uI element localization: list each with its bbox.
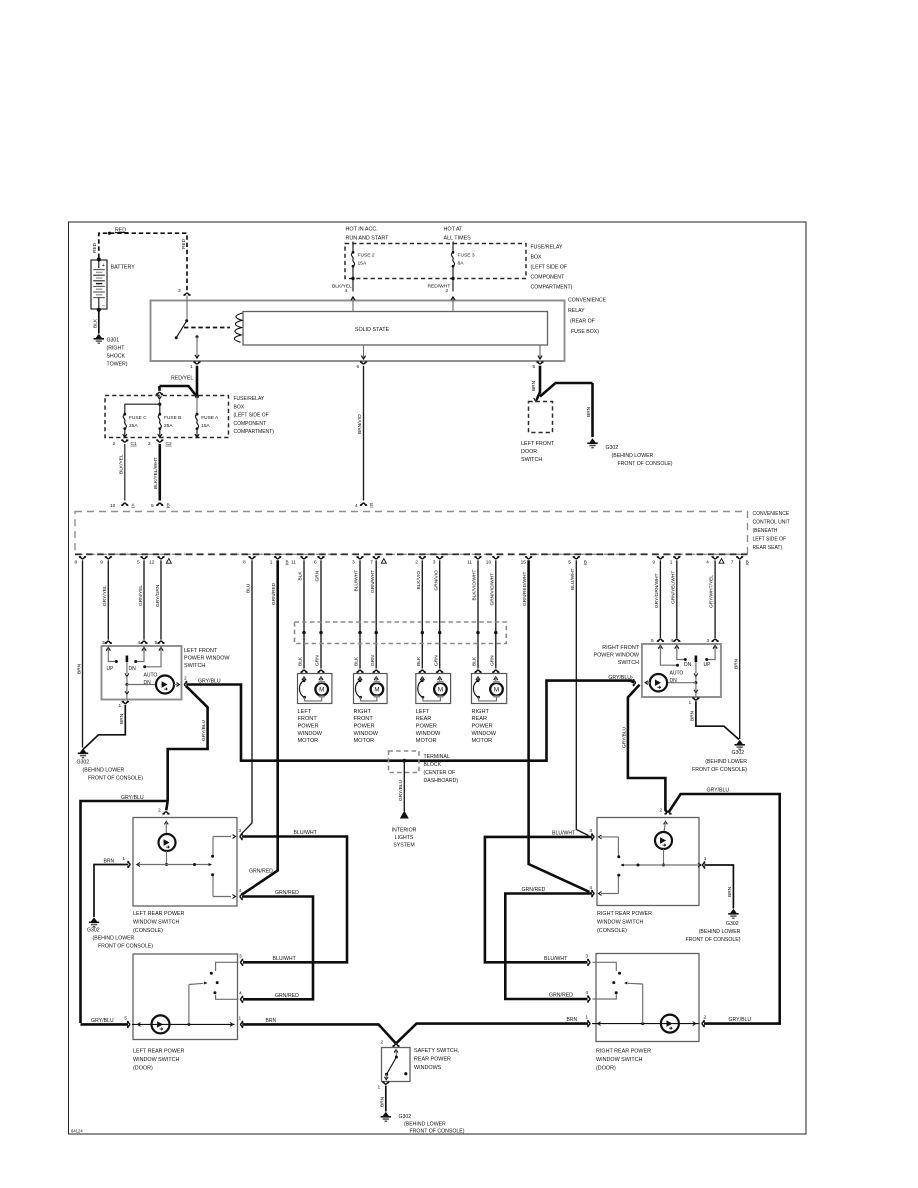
svg-text:1: 1 (689, 700, 692, 706)
door switch pin 3 right (587, 959, 590, 965)
wire BRN relay pin 5 to left front door switch (539, 366, 542, 393)
svg-text:COMPARTMENT): COMPARTMENT) (531, 285, 573, 291)
wire BLK/YEL/WHT fuse B to control unit pin 5-B (159, 444, 162, 501)
svg-text:4: 4 (589, 885, 592, 891)
relay pin 2 (452, 298, 454, 312)
svg-text:BLU/WHT: BLU/WHT (570, 568, 576, 590)
wire GRN/RED right console pin 4 to right door pin 4 (505, 894, 592, 1000)
svg-text:11: 11 (291, 559, 296, 565)
svg-text:BLK: BLK (354, 656, 360, 666)
svg-text:COMPONENT: COMPONENT (531, 275, 566, 281)
splice triangle after pin 12 (166, 559, 171, 564)
svg-text:3: 3 (102, 640, 105, 646)
svg-text:GRY/GRN: GRY/GRN (155, 584, 161, 607)
svg-text:1: 1 (190, 364, 193, 370)
right rear power window motor box (472, 674, 507, 704)
svg-text:LEFT REAR POWER: LEFT REAR POWER (133, 911, 185, 917)
svg-text:BRN: BRN (379, 1096, 385, 1107)
svg-text:FRONT OF CONSOLE): FRONT OF CONSOLE) (618, 461, 673, 467)
svg-text:M: M (374, 687, 379, 694)
svg-text:10: 10 (486, 559, 492, 565)
console auto-down circle right (655, 832, 672, 849)
wire GRY/GRN control pin 12 to switch pin 5 (160, 560, 162, 639)
svg-text:5: 5 (651, 638, 654, 644)
svg-text:2: 2 (148, 441, 151, 447)
wire GRY/GRN/WHT control pin 9 to right switch pin 5 (659, 560, 661, 638)
wire BLU/WHT right console pin 3 to right door pin 3 (485, 837, 592, 962)
svg-text:B: B (584, 560, 587, 565)
svg-text:2: 2 (184, 676, 187, 682)
svg-text:(CONSOLE): (CONSOLE) (597, 928, 627, 934)
relay pin 4 (352, 298, 354, 312)
svg-text:LIGHTS: LIGHTS (395, 835, 414, 841)
door switch common line right (592, 1023, 700, 1025)
left front power window switch S1 box (102, 646, 182, 700)
console switch pin 1 right (703, 862, 706, 868)
svg-text:GRN: GRN (370, 655, 376, 666)
svg-text:CONVENIENCE: CONVENIENCE (568, 298, 607, 304)
wire BRN switch pin 1 to ground (84, 705, 126, 749)
right rear power window switch (door) S6 box (596, 954, 699, 1042)
wire into fuse 3 (452, 242, 454, 253)
safety switch box (382, 1048, 411, 1082)
wire BLK control unit to window motor (303, 560, 305, 668)
left rear power window motor motor armature (434, 683, 447, 696)
svg-text:BRN: BRN (586, 406, 592, 417)
fuse F3 8A (452, 251, 455, 254)
fuse box feed bus (159, 395, 161, 399)
splice triangle after pin 4 right (719, 559, 724, 564)
svg-text:BRN: BRN (266, 1018, 277, 1024)
wire GRN/VIO/WHT control unit to window motor (495, 560, 497, 668)
door switch pin 3 (241, 959, 244, 965)
switch pin 1 (122, 701, 128, 704)
door pin 4 contact right (593, 995, 617, 1000)
interior lights system off-page arrow (400, 811, 409, 819)
svg-text:(CONSOLE): (CONSOLE) (133, 928, 163, 934)
svg-text:B: B (746, 560, 749, 565)
svg-text:5: 5 (124, 1016, 127, 1022)
svg-text:SWITCH: SWITCH (618, 660, 639, 666)
svg-text:POWER WINDOW: POWER WINDOW (593, 653, 639, 659)
right rear power window motor pin arrows (476, 677, 480, 680)
svg-text:9: 9 (100, 559, 103, 565)
svg-text:2: 2 (660, 808, 663, 814)
svg-text:BLU/WHT: BLU/WHT (273, 956, 297, 962)
svg-text:2: 2 (415, 559, 418, 565)
fuse/relay box (left) dashed enclosure (105, 396, 229, 438)
svg-text:DASHBOARD): DASHBOARD) (424, 778, 459, 784)
switch pin 2 (633, 680, 636, 686)
svg-text:1: 1 (122, 856, 125, 862)
svg-text:BLU/WHT: BLU/WHT (294, 830, 318, 836)
svg-text:G302: G302 (726, 921, 739, 927)
svg-text:WINDOW SWITCH: WINDOW SWITCH (133, 1057, 180, 1063)
right rear power window motor motor armature (490, 683, 503, 696)
wire GRN/VIO control unit to window motor (439, 560, 441, 668)
fuse/relay box (top) dashed enclosure (345, 244, 526, 279)
svg-text:GRY/GRN/WHT: GRY/GRN/WHT (654, 573, 660, 608)
svg-text:5: 5 (568, 559, 571, 565)
svg-text:FUSE/RELAY: FUSE/RELAY (234, 396, 265, 402)
switch DN contact (137, 652, 145, 662)
wire BRN control pin 7 to ground right (739, 560, 741, 739)
svg-text:GRY/BLU: GRY/BLU (707, 788, 730, 794)
svg-text:1: 1 (270, 559, 273, 565)
svg-text:(REAR OF: (REAR OF (570, 319, 595, 325)
wire GRY/BLU right branch to rear switches (628, 685, 667, 813)
svg-text:3: 3 (585, 954, 588, 960)
connector junction dots (302, 631, 305, 634)
svg-text:BATTERY: BATTERY (111, 265, 136, 271)
wire BLK battery to ground (98, 309, 100, 334)
relay pin 1 (196, 337, 198, 358)
svg-text:FUSE B: FUSE B (164, 415, 181, 421)
svg-text:BRN: BRN (567, 1017, 578, 1023)
svg-text:COMPARTMENT): COMPARTMENT) (234, 429, 275, 435)
svg-text:G301: G301 (107, 338, 120, 344)
console auto-down circle (159, 834, 176, 851)
motor M-RIGHTREAR connector pins (475, 670, 481, 673)
svg-text:GRY/BLU: GRY/BLU (121, 795, 144, 801)
svg-text:GRN/YEL/WHT: GRN/YEL/WHT (670, 571, 676, 604)
ground G302 safety switch (381, 1112, 391, 1121)
svg-text:UP: UP (704, 662, 712, 668)
svg-text:BLK: BLK (472, 656, 478, 666)
svg-text:TERMINAL: TERMINAL (424, 754, 450, 760)
door switch pin 1 (241, 1021, 244, 1027)
wire GRN/WHT control unit to window motor (375, 560, 377, 668)
svg-text:M: M (494, 687, 499, 694)
svg-text:GRN/RED: GRN/RED (275, 890, 299, 896)
door pin 3 contact right (593, 962, 617, 971)
svg-text:RIGHT REAR POWER: RIGHT REAR POWER (597, 911, 652, 917)
door switch pin 4 right (587, 996, 590, 1002)
svg-text:GRY/BLU: GRY/BLU (621, 726, 627, 748)
svg-text:REAR POWER: REAR POWER (414, 1057, 451, 1063)
svg-text:GRY/BLU: GRY/BLU (608, 675, 631, 681)
svg-text:BLK/VIO/WHT: BLK/VIO/WHT (472, 570, 478, 601)
wire BRN right console pin 1 to ground (704, 865, 733, 909)
svg-text:WINDOW: WINDOW (354, 731, 379, 737)
wire into fuse 2 (352, 242, 354, 253)
svg-text:GRN/VIO: GRN/VIO (433, 570, 439, 591)
switch common contact bar (126, 656, 129, 663)
svg-text:G302: G302 (87, 928, 100, 934)
svg-text:BLOCK: BLOCK (424, 762, 442, 768)
left rear power window switch (console) S3 box (133, 818, 237, 907)
svg-text:AUTO: AUTO (670, 671, 684, 677)
wire RED/YEL relay pin 1 to fuse box (196, 366, 199, 396)
svg-text:15A: 15A (201, 423, 210, 429)
svg-text:7: 7 (731, 559, 734, 565)
svg-text:GRY/WHT/YEL: GRY/WHT/YEL (709, 575, 715, 608)
svg-text:(BEHIND LOWER: (BEHIND LOWER (612, 453, 654, 459)
svg-text:1: 1 (585, 1015, 588, 1021)
svg-text:C2: C2 (166, 441, 172, 447)
svg-text:BLK/YEL: BLK/YEL (119, 454, 125, 474)
wire BLU/WHT left console pin 3 to left door pin 3 (242, 837, 347, 963)
svg-text:RUN AND START: RUN AND START (346, 236, 390, 242)
svg-text:4: 4 (345, 288, 348, 294)
convenience relay outer box (151, 301, 565, 362)
svg-text:1: 1 (239, 1016, 242, 1022)
svg-text:CONTROL UNIT: CONTROL UNIT (753, 520, 790, 526)
svg-text:5: 5 (137, 559, 140, 565)
svg-text:DN: DN (670, 678, 678, 684)
switch auto-down line (127, 684, 156, 686)
svg-text:LEFT REAR POWER: LEFT REAR POWER (133, 1049, 185, 1055)
relay switch to coil dashed link (184, 327, 230, 329)
wire GRY/BLU down left side to door switch (81, 801, 168, 1023)
svg-text:POWER WINDOW: POWER WINDOW (184, 656, 230, 662)
svg-text:(BEHIND LOWER: (BEHIND LOWER (699, 929, 741, 935)
svg-text:BRN: BRN (104, 858, 115, 864)
left rear power window motor brush arc (418, 681, 423, 698)
svg-text:GRN/WHT: GRN/WHT (370, 570, 376, 593)
svg-text:GRN: GRN (315, 570, 321, 581)
switch pin5 contact (660, 650, 676, 665)
svg-text:RIGHT: RIGHT (472, 709, 490, 715)
console switch pin 2 right (665, 812, 671, 815)
svg-text:2: 2 (158, 808, 161, 814)
svg-text:FUSE A: FUSE A (201, 415, 219, 421)
safety switch contacts (394, 1050, 398, 1053)
door switch pin 1 right (587, 1020, 590, 1026)
svg-text:M: M (438, 687, 443, 694)
ground G302 right console (728, 909, 738, 918)
wire BLU/WHT control pin 5 to right rear console switch pin 3 (576, 560, 588, 835)
svg-text:5: 5 (151, 503, 154, 509)
svg-text:3: 3 (239, 828, 242, 834)
svg-text:UP: UP (107, 666, 115, 672)
svg-text:8: 8 (75, 559, 78, 565)
wire RED dashed from battery to relay pin 3 (99, 233, 187, 291)
svg-text:–: – (102, 303, 105, 309)
svg-text:WINDOW: WINDOW (472, 731, 497, 737)
svg-text:FUSE BOX): FUSE BOX) (571, 329, 599, 335)
svg-text:GRN/RED: GRN/RED (522, 887, 546, 893)
wire BRN left door pin 1 to safety switch (242, 1024, 395, 1043)
wire BLK/YEL fuse C to control unit pin 10-A (124, 444, 126, 501)
wire GRN/YEL control pin 5 to switch pin 4 (143, 560, 145, 639)
svg-text:LEFT SIDE OF: LEFT SIDE OF (753, 537, 787, 543)
svg-text:HOT IN ACC.: HOT IN ACC. (346, 227, 378, 233)
wire BLK/VIO control unit to window motor (421, 560, 423, 668)
wire BLU/WHT control unit to window motor (359, 560, 361, 668)
svg-text:SOLID STATE: SOLID STATE (355, 327, 390, 333)
svg-text:SWITCH: SWITCH (184, 663, 205, 669)
left front power window motor brush arc (299, 681, 304, 698)
switch pin 2 (185, 681, 188, 687)
door switch pin 4 (241, 996, 244, 1002)
door switch selector right (642, 984, 644, 1024)
fuse F2 15A (352, 251, 355, 254)
wire GRN/RED control pin 1 to left rear console switch pin 4 (243, 560, 278, 894)
console common line right (663, 849, 665, 865)
wire GRY/BLU left front switch pin 2 across terminal block to right front switch pin 2 (186, 681, 634, 761)
svg-text:11: 11 (467, 559, 472, 565)
svg-text:C1: C1 (131, 441, 137, 447)
relay switch contacts (186, 296, 188, 321)
svg-text:B: B (286, 560, 289, 565)
svg-text:(CENTER OF: (CENTER OF (424, 770, 456, 776)
svg-text:LEFT FRONT: LEFT FRONT (521, 441, 555, 447)
svg-text:GRY/BLU: GRY/BLU (398, 779, 404, 801)
svg-text:BLK: BLK (93, 318, 99, 328)
svg-text:4: 4 (706, 559, 709, 565)
console switch pin 2 (163, 812, 169, 815)
svg-text:FUSE C: FUSE C (129, 415, 147, 421)
svg-text:(BEHIND LOWER: (BEHIND LOWER (83, 768, 125, 774)
svg-text:FRONT: FRONT (354, 716, 374, 722)
svg-text:E: E (370, 502, 373, 508)
right rear power window motor brush arc (473, 681, 478, 698)
auto-down circuit circle (650, 674, 667, 691)
svg-text:(DOOR): (DOOR) (133, 1066, 153, 1072)
console switch pin 4 right (591, 890, 594, 896)
svg-text:MOTOR: MOTOR (416, 738, 437, 744)
svg-text:BRN: BRN (689, 710, 695, 721)
left front power window motor motor armature (315, 683, 328, 696)
relay pin 5 (539, 345, 541, 358)
svg-text:MOTOR: MOTOR (354, 738, 375, 744)
wire GRN/YEL/WHT control pin 1 to right switch pin 4 (676, 560, 678, 638)
svg-text:(BENEATH: (BENEATH (753, 528, 778, 534)
svg-text:INTERIOR: INTERIOR (392, 828, 417, 834)
switch UP contact (708, 650, 716, 660)
svg-text:8A: 8A (458, 261, 465, 267)
svg-text:BLK: BLK (416, 656, 422, 666)
switch UP contact (108, 652, 115, 662)
svg-text:POWER: POWER (472, 724, 493, 730)
svg-text:25A: 25A (129, 423, 138, 429)
wire GRN/RED left console pin 4 to left door pin 4 (242, 897, 313, 1000)
fuse FB 25A (158, 413, 161, 416)
svg-text:FUSE 3: FUSE 3 (458, 253, 475, 259)
svg-text:FRONT OF CONSOLE): FRONT OF CONSOLE) (410, 1129, 465, 1135)
motor M-RIGHTFRONT connector pins (357, 670, 363, 673)
wire GRY/BLU branch left to rear switches (168, 686, 208, 801)
svg-text:GRN/YEL: GRN/YEL (138, 585, 144, 606)
terminal block dashed box (389, 751, 420, 773)
wire BRN/VIO relay pin 6 to control unit pin 4-E (363, 366, 365, 501)
svg-text:(BEHIND LOWER: (BEHIND LOWER (404, 1122, 446, 1128)
svg-text:G302: G302 (732, 750, 745, 756)
svg-text:BOX: BOX (531, 255, 542, 261)
svg-text:GRN/RED/WHT: GRN/RED/WHT (522, 572, 528, 606)
svg-text:POWER: POWER (298, 724, 319, 730)
svg-text:3: 3 (589, 828, 592, 834)
svg-text:DOOR: DOOR (521, 449, 537, 455)
fuse FA 15A (196, 413, 199, 416)
ground G302 right front (735, 740, 745, 749)
svg-text:RED/YEL: RED/YEL (171, 376, 193, 382)
svg-text:(RIGHT: (RIGHT (107, 346, 126, 352)
svg-text:RIGHT FRONT: RIGHT FRONT (602, 645, 639, 651)
svg-text:WINDOW: WINDOW (416, 731, 441, 737)
left front power window motor pin arrows (302, 677, 306, 680)
svg-text:BLU: BLU (246, 583, 252, 593)
svg-text:3: 3 (239, 954, 242, 960)
svg-text:HOT AT: HOT AT (444, 227, 464, 233)
svg-text:FRONT: FRONT (298, 716, 318, 722)
svg-text:(LEFT SIDE OF: (LEFT SIDE OF (234, 413, 269, 419)
svg-text:1: 1 (119, 703, 122, 709)
svg-text:SWITCH: SWITCH (521, 457, 542, 463)
svg-text:64124: 64124 (71, 1128, 83, 1133)
svg-text:DN: DN (129, 666, 137, 672)
right front power window switch S2 box (642, 644, 721, 697)
right rear power window switch (console) S4 box (597, 818, 699, 906)
svg-text:3: 3 (178, 288, 181, 294)
fuse outputs with arrows (124, 429, 126, 437)
auto-down circuit circle (156, 676, 174, 694)
ground G302 left front (78, 748, 88, 757)
left rear power window motor box (416, 674, 451, 704)
relay pin 6 (363, 345, 365, 358)
left front power window motor box (298, 674, 332, 704)
switch pin 1 (693, 697, 699, 700)
svg-text:15A: 15A (358, 261, 367, 267)
svg-text:MOTOR: MOTOR (472, 738, 493, 744)
ground G302 left console (89, 917, 99, 926)
right front power window motor brush arc (355, 681, 360, 698)
svg-text:RED: RED (92, 242, 98, 253)
console switch pin 3 right (591, 834, 594, 840)
svg-text:4: 4 (585, 990, 588, 996)
svg-text:CONVENIENCE: CONVENIENCE (753, 511, 790, 517)
svg-text:AUTO: AUTO (144, 673, 158, 679)
svg-text:(LEFT SIDE OF: (LEFT SIDE OF (531, 265, 568, 271)
svg-text:B: B (167, 502, 170, 508)
svg-text:(BEHIND LOWER: (BEHIND LOWER (93, 936, 135, 942)
relay solid state box U1 (243, 312, 548, 346)
console switch pin 4 (240, 893, 243, 899)
svg-text:WINDOWS: WINDOWS (414, 1065, 442, 1071)
svg-text:WINDOW SWITCH: WINDOW SWITCH (133, 920, 180, 926)
battery B1 (91, 260, 107, 309)
svg-text:GRN: GRN (489, 655, 495, 666)
fuse FC 25A (123, 413, 126, 416)
svg-text:2: 2 (113, 441, 116, 447)
svg-text:GRN: GRN (315, 655, 321, 666)
wire GRN/RED/WHT control pin 15 to right rear console switch pin 4 (529, 560, 590, 892)
svg-text:FRONT OF CONSOLE): FRONT OF CONSOLE) (692, 767, 747, 773)
wire BRN safety switch to ground (385, 1086, 387, 1112)
convenience control unit dashed box (75, 512, 748, 555)
wire GRY/BLU into left console switch pin 2 (166, 801, 168, 810)
in-line connector dashed box across motor wires (295, 622, 507, 644)
svg-text:BLK/YEL: BLK/YEL (332, 283, 352, 289)
svg-text:GRN/VIO/WHT: GRN/VIO/WHT (489, 573, 495, 606)
svg-text:GRN/RED: GRN/RED (549, 993, 573, 999)
svg-text:BRN: BRN (727, 886, 733, 897)
wire GRY/YEL control pin 9 to switch pin 3 (107, 560, 109, 639)
svg-text:POWER: POWER (354, 724, 375, 730)
svg-text:LEFT FRONT: LEFT FRONT (184, 648, 218, 654)
console common line (166, 851, 168, 865)
door auto-down circle (152, 1015, 170, 1033)
wire GRN control unit to window motor (320, 560, 322, 668)
door pin 3 contact (216, 962, 239, 971)
left front door switch dashed box (529, 402, 553, 433)
svg-text:FRONT OF CONSOLE): FRONT OF CONSOLE) (88, 776, 143, 782)
svg-text:2: 2 (381, 1040, 384, 1046)
svg-text:8: 8 (243, 559, 246, 565)
svg-text:REAR: REAR (416, 716, 432, 722)
safety switch S7 pin 2 (393, 1044, 399, 1047)
